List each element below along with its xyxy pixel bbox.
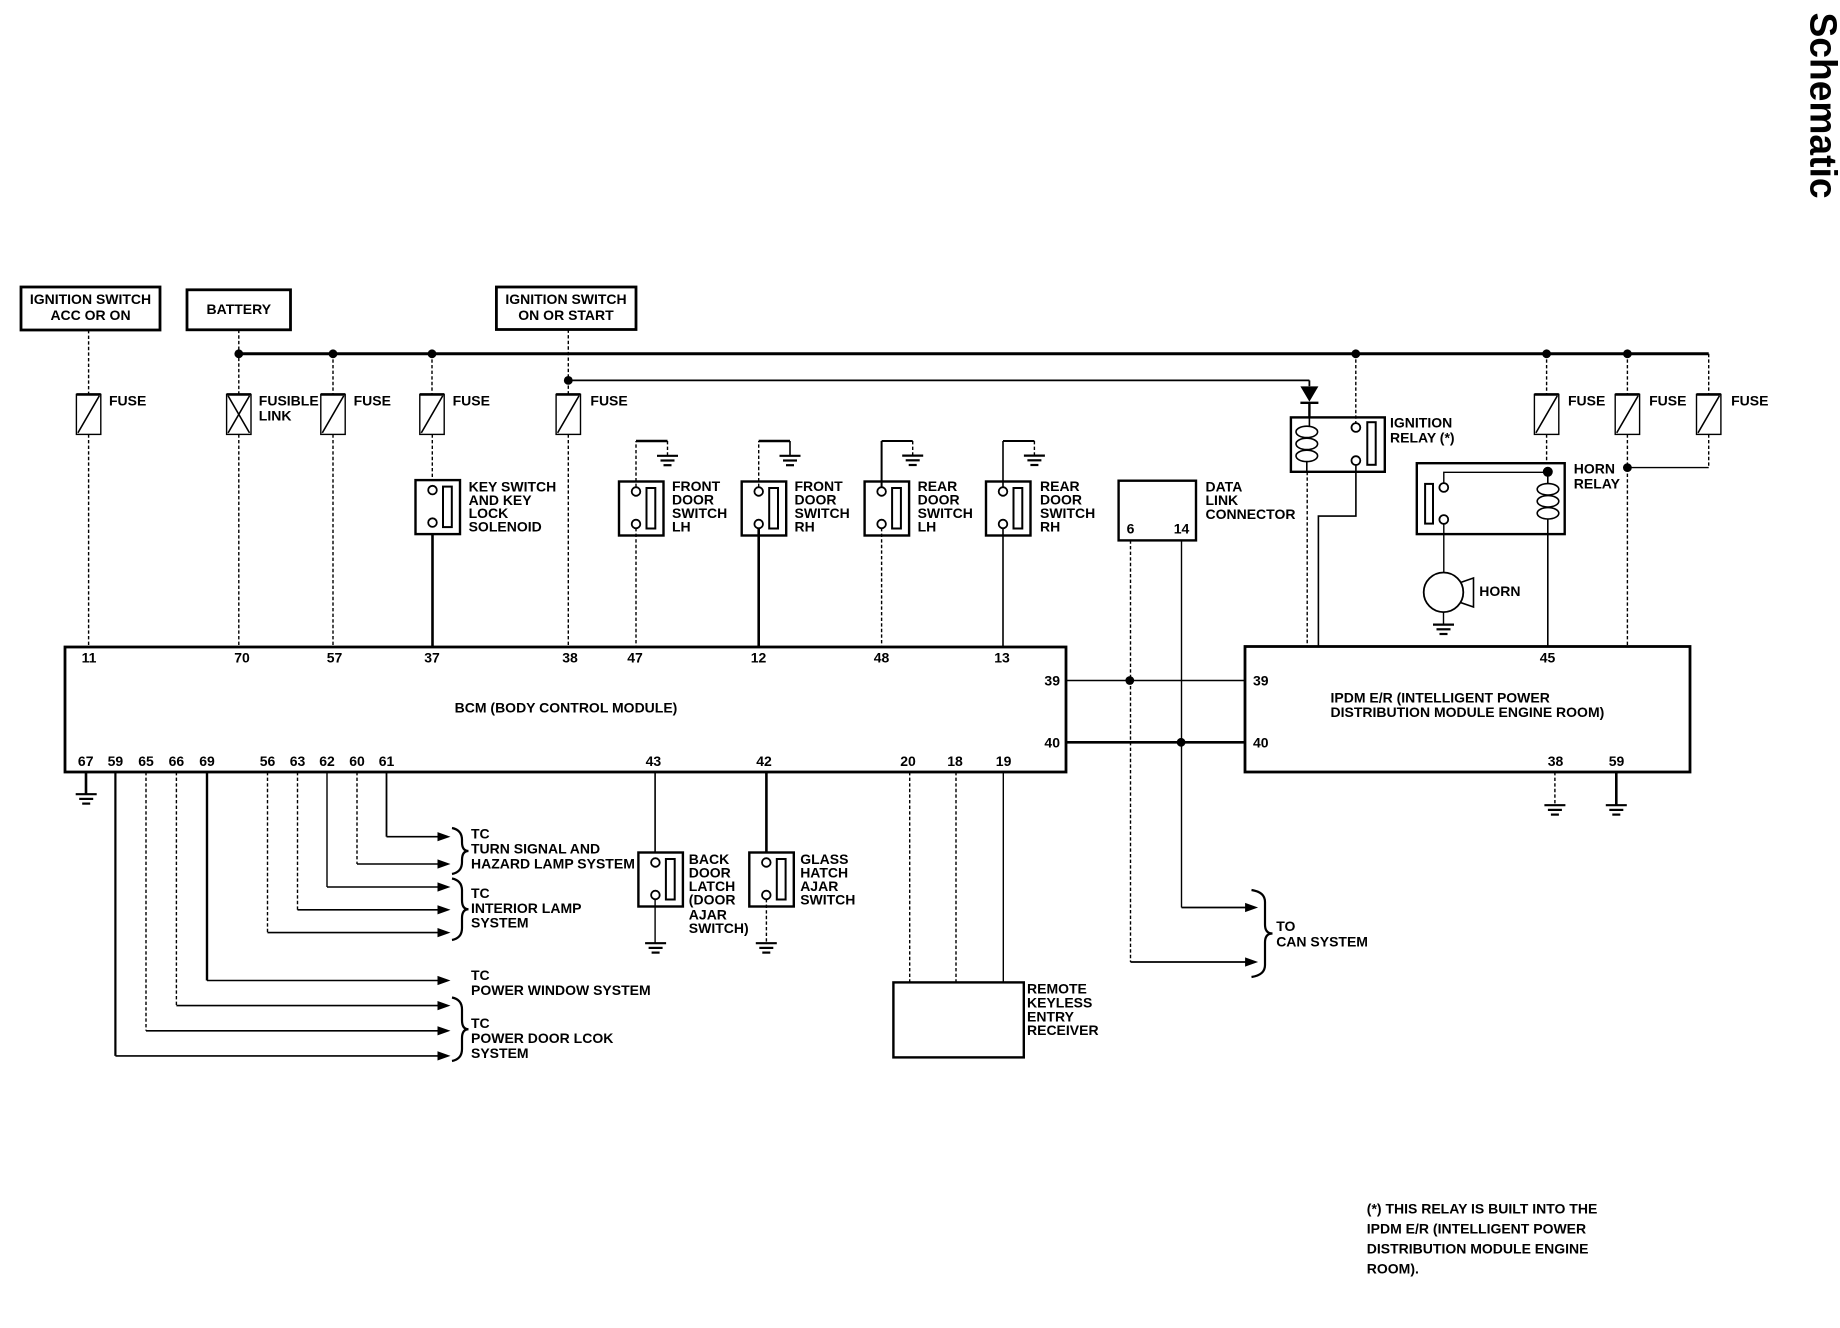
svg-text:42: 42 — [756, 753, 772, 769]
svg-text:45: 45 — [1540, 649, 1556, 665]
svg-text:POWER DOOR LCOK: POWER DOOR LCOK — [471, 1030, 613, 1046]
svg-text:FUSE: FUSE — [1568, 393, 1605, 409]
wire battery feed — [238, 330, 240, 395]
wire BCM pin 56 to system arrow — [267, 772, 269, 933]
wire BCM pin 20 to receiver — [909, 772, 911, 982]
switch front door switch RH — [742, 482, 787, 536]
svg-text:IPDM E/R (INTELLIGENT POWER: IPDM E/R (INTELLIGENT POWER — [1367, 1221, 1586, 1237]
svg-text:INTERIOR LAMP: INTERIOR LAMP — [471, 900, 581, 916]
svg-text:DISTRIBUTION MODULE ENGINE: DISTRIBUTION MODULE ENGINE — [1367, 1241, 1589, 1257]
switch front door switch LH — [619, 482, 664, 536]
module U2 IPDM E/R — [1245, 647, 1690, 773]
wire fusible link to BCM pin 70 — [238, 434, 240, 647]
svg-text:13: 13 — [994, 649, 1010, 665]
wire ignition relay coil to IPDM — [1306, 462, 1308, 647]
wire ON/START feed to fuse F4 — [567, 330, 569, 395]
wire BCM pin 67 to ground — [85, 772, 88, 794]
wire fuse F7 drop — [1708, 434, 1710, 467]
wire ignition relay switch to IPDM — [1318, 465, 1356, 647]
node BATTERY (power source box) — [187, 290, 291, 330]
brace interior lamp system — [452, 879, 469, 941]
wire BCM pin 60 to system arrow — [356, 772, 358, 864]
junction bus at IPDM fuse branch — [1623, 349, 1632, 358]
brace turn signal systems — [452, 828, 469, 874]
svg-text:TC: TC — [471, 885, 490, 901]
fuse F4 — [556, 394, 580, 434]
wire horn relay internal switch-to-coil — [1444, 472, 1548, 483]
svg-text:HAZARD LAMP SYSTEM: HAZARD LAMP SYSTEM — [471, 855, 635, 871]
junction ON/START bus tap — [564, 376, 573, 385]
wire rear door switch RH to ground — [1002, 441, 1004, 487]
svg-text:IGNITION SWITCH: IGNITION SWITCH — [505, 291, 626, 307]
fuse F2 — [321, 394, 345, 434]
svg-text:Schematic: Schematic — [1802, 13, 1840, 199]
wire BCM pin 69 to system arrow — [206, 772, 208, 981]
brace power door lock system — [452, 998, 469, 1062]
svg-text:38: 38 — [1548, 753, 1564, 769]
svg-text:14: 14 — [1174, 520, 1190, 536]
wire BCM pin 65 to system arrow — [145, 772, 147, 1031]
svg-text:DISTRIBUTION MODULE ENGINE ROO: DISTRIBUTION MODULE ENGINE ROOM) — [1331, 704, 1605, 720]
svg-text:47: 47 — [627, 649, 643, 665]
svg-text:HORN: HORN — [1479, 583, 1520, 599]
wire bus to fuse F5 (horn) — [1546, 354, 1548, 395]
svg-text:20: 20 — [900, 753, 916, 769]
svg-text:RECEIVER: RECEIVER — [1027, 1022, 1099, 1038]
wire CAN arrow lower — [1131, 961, 1247, 963]
wire fuse F3 to key switch — [431, 434, 433, 480]
svg-text:40: 40 — [1253, 735, 1269, 751]
wire front door switch LH to ground — [635, 441, 637, 487]
junction bus at horn-relay fuse branch — [1542, 349, 1551, 358]
wire CAN line pin39 BCM to IPDM — [1066, 680, 1245, 682]
wire bus to ignition relay switch — [1355, 354, 1357, 423]
wire fuse F6 to IPDM — [1626, 434, 1628, 646]
switch S1 key switch and key lock solenoid — [416, 480, 461, 534]
svg-text:IGNITION SWITCH: IGNITION SWITCH — [30, 291, 151, 307]
wire rear door switch LH to BCM pin 48 — [881, 528, 883, 647]
svg-text:TC: TC — [471, 826, 490, 842]
svg-text:FUSE: FUSE — [354, 393, 391, 409]
svg-text:FUSE: FUSE — [1649, 393, 1686, 409]
brace TO CAN SYSTEM — [1252, 890, 1273, 977]
fuse F5 — [1534, 394, 1558, 434]
junction CAN line 39 with DLC pin 6 — [1125, 676, 1134, 685]
svg-text:61: 61 — [379, 753, 395, 769]
fuse F6 — [1615, 394, 1639, 434]
wire BCM pin 62 to system arrow — [326, 772, 328, 887]
svg-text:66: 66 — [169, 753, 185, 769]
svg-text:TO: TO — [1276, 918, 1295, 934]
junction CAN line 40 with DLC pin 14 — [1177, 738, 1186, 747]
svg-text:39: 39 — [1253, 673, 1269, 689]
svg-text:FUSE: FUSE — [1731, 393, 1768, 409]
svg-text:RH: RH — [1040, 518, 1060, 534]
svg-text:43: 43 — [646, 753, 662, 769]
svg-text:CONNECTOR: CONNECTOR — [1206, 506, 1296, 522]
wire back door latch to ground — [654, 899, 656, 943]
switch back door latch (door ajar switch) — [638, 853, 683, 907]
svg-text:BATTERY: BATTERY — [207, 301, 272, 317]
wire ACC feed to fuse — [88, 330, 90, 394]
svg-text:RELAY (*): RELAY (*) — [1390, 430, 1455, 446]
svg-text:LINK: LINK — [259, 408, 292, 424]
switch glass hatch ajar switch — [749, 853, 794, 907]
wire bus to fuse F2 — [332, 354, 334, 395]
svg-text:RELAY: RELAY — [1574, 475, 1621, 491]
fuse F3 — [420, 394, 444, 434]
svg-text:40: 40 — [1044, 735, 1060, 751]
svg-text:70: 70 — [234, 649, 250, 665]
svg-text:59: 59 — [108, 753, 124, 769]
wire BCM pin 59 to system arrow — [114, 772, 116, 1056]
svg-text:6: 6 — [1127, 520, 1135, 536]
wire main battery bus — [239, 352, 1709, 355]
svg-text:ACC OR ON: ACC OR ON — [50, 307, 130, 323]
junction fuse F6/F7 tie — [1623, 463, 1632, 472]
wire BCM pin 61 to system arrow — [386, 772, 388, 837]
svg-text:POWER WINDOW SYSTEM: POWER WINDOW SYSTEM — [471, 982, 651, 998]
svg-text:62: 62 — [319, 753, 335, 769]
fusible link FL — [227, 394, 251, 434]
svg-text:19: 19 — [996, 753, 1012, 769]
svg-text:(DOOR: (DOOR — [689, 891, 736, 907]
svg-text:38: 38 — [562, 649, 578, 665]
svg-text:57: 57 — [327, 649, 343, 665]
svg-text:12: 12 — [751, 649, 767, 665]
wire DLC pin 14 drop (CAN) — [1181, 540, 1183, 907]
wire BCM pin 19 to receiver — [1002, 772, 1004, 982]
svg-text:63: 63 — [290, 753, 306, 769]
contact terminals and switch of ignition relay K1 — [1352, 422, 1376, 465]
svg-text:ON OR START: ON OR START — [518, 307, 614, 323]
relay K2 horn relay — [1417, 463, 1565, 534]
svg-text:LH: LH — [918, 518, 937, 534]
wire ignition ON/START bus — [568, 379, 1309, 381]
wire bus to fuse F3 — [431, 354, 433, 395]
wire BCM pin 42 to glass hatch switch — [765, 772, 768, 853]
wire bus to fuse F6 — [1626, 354, 1628, 395]
svg-text:TC: TC — [471, 967, 490, 983]
svg-text:FUSE: FUSE — [109, 392, 146, 408]
junction bus at ignition relay branch — [1351, 349, 1360, 358]
ground G9 (back door latch) — [645, 943, 666, 952]
wire fuse F2 to BCM pin 57 — [332, 434, 334, 647]
connector J1 data link connector — [1119, 481, 1196, 541]
svg-text:IPDM E/R (INTELLIGENT POWER: IPDM E/R (INTELLIGENT POWER — [1331, 690, 1550, 706]
module U3 remote keyless entry receiver — [893, 982, 1023, 1057]
wire IPDM pin 38 to ground — [1554, 772, 1556, 805]
relay K1 ignition relay — [1291, 417, 1385, 471]
svg-text:39: 39 — [1044, 673, 1060, 689]
svg-text:SYSTEM: SYSTEM — [471, 915, 529, 931]
svg-text:SWITCH: SWITCH — [800, 891, 855, 907]
wire fuse F7 tie to F6 line — [1627, 467, 1708, 469]
wire fuse F5 to horn relay — [1546, 434, 1548, 467]
wire bus right end drop to fuse — [1708, 354, 1710, 395]
svg-text:ROOM).: ROOM). — [1367, 1260, 1419, 1276]
wire BCM pin 66 to system arrow — [175, 772, 177, 1006]
wire key switch to BCM pin 37 — [431, 534, 434, 647]
wire horn to ground — [1443, 612, 1445, 625]
switch rear door switch LH — [865, 482, 910, 536]
switch rear door switch RH — [986, 482, 1031, 536]
wire front door switch RH to ground — [758, 441, 760, 487]
svg-text:FUSIBLE: FUSIBLE — [259, 392, 319, 408]
ground G3 (rear door switch LH) — [902, 456, 923, 465]
svg-text:SOLENOID: SOLENOID — [469, 519, 542, 535]
junction battery bus at battery feed — [234, 349, 243, 358]
node IGNITION SWITCH ACC OR ON (power source box) — [21, 287, 160, 330]
wire front door switch LH to BCM pin 47 — [635, 528, 637, 647]
ground G1 (front door switch LH) — [657, 456, 678, 465]
svg-text:TURN SIGNAL AND: TURN SIGNAL AND — [471, 841, 600, 857]
wire DLC pin 6 drop (CAN) — [1130, 540, 1132, 962]
svg-text:48: 48 — [874, 649, 890, 665]
diode D1 — [1300, 380, 1318, 417]
wire BCM pin 63 to system arrow — [297, 772, 299, 910]
svg-text:IGNITION: IGNITION — [1390, 415, 1452, 431]
wire horn relay switch to horn — [1443, 524, 1445, 573]
wire BCM pin 43 to back door latch — [654, 772, 656, 853]
wire rear door switch RH to BCM pin 13 — [1002, 528, 1004, 647]
svg-text:RH: RH — [795, 518, 815, 534]
wire CAN line pin40 BCM to IPDM — [1066, 741, 1245, 744]
svg-text:FUSE: FUSE — [590, 393, 627, 409]
wire fuse F4 to BCM pin 38 — [567, 434, 569, 647]
ground G5 (horn) — [1433, 625, 1454, 634]
module U1 BCM body control module — [65, 647, 1066, 772]
switch contacts of horn relay K2 — [1425, 483, 1448, 524]
ground G4 (rear door switch RH) — [1024, 456, 1045, 465]
svg-text:BCM (BODY CONTROL MODULE): BCM (BODY CONTROL MODULE) — [455, 700, 678, 716]
svg-text:37: 37 — [424, 649, 440, 665]
wire glass hatch switch to ground — [765, 899, 767, 943]
fuse F7 — [1697, 394, 1721, 434]
ground G2 (front door switch RH) — [780, 456, 801, 465]
horn B1 — [1424, 573, 1474, 613]
svg-text:18: 18 — [947, 753, 963, 769]
wire rear door switch LH to ground — [881, 441, 883, 487]
svg-text:(*) THIS RELAY IS BUILT INTO T: (*) THIS RELAY IS BUILT INTO THE — [1367, 1201, 1598, 1217]
svg-text:LH: LH — [672, 518, 691, 534]
junction horn relay coil top — [1543, 467, 1553, 477]
wire horn relay coil to IPDM pin 45 — [1547, 519, 1549, 647]
svg-text:59: 59 — [1609, 753, 1625, 769]
svg-text:65: 65 — [138, 753, 154, 769]
node IGNITION SWITCH ON OR START (power source box) — [496, 287, 636, 330]
svg-text:56: 56 — [260, 753, 276, 769]
svg-text:HORN: HORN — [1574, 460, 1615, 476]
svg-text:CAN SYSTEM: CAN SYSTEM — [1276, 934, 1368, 950]
ground G10 (glass hatch) — [756, 943, 777, 952]
fuse F1 (ACC) — [76, 394, 100, 434]
wire front door switch RH to BCM pin 12 — [757, 528, 760, 647]
wire IPDM pin 59 to ground — [1615, 772, 1618, 805]
coil of ignition relay K1 — [1296, 426, 1318, 461]
ground G6 (IPDM 38) — [1544, 805, 1565, 814]
ground G7 (IPDM 59) — [1606, 805, 1627, 814]
ground G8 (BCM 67) — [76, 794, 97, 803]
svg-text:SYSTEM: SYSTEM — [471, 1045, 529, 1061]
svg-text:69: 69 — [199, 753, 215, 769]
svg-text:67: 67 — [78, 753, 94, 769]
svg-text:SWITCH): SWITCH) — [689, 920, 749, 936]
wire BCM pin 18 to receiver — [955, 772, 957, 982]
junction bus at fuse 57 branch — [329, 349, 338, 358]
wire CAN arrow upper — [1182, 907, 1247, 909]
junction bus at fuse 37 branch — [428, 349, 437, 358]
svg-text:60: 60 — [349, 753, 365, 769]
svg-text:TC: TC — [471, 1015, 490, 1031]
coil of horn relay K2 — [1537, 476, 1559, 519]
wire fuse F1 to BCM pin 11 — [88, 434, 90, 647]
svg-text:FUSE: FUSE — [453, 393, 490, 409]
svg-text:11: 11 — [82, 649, 97, 665]
